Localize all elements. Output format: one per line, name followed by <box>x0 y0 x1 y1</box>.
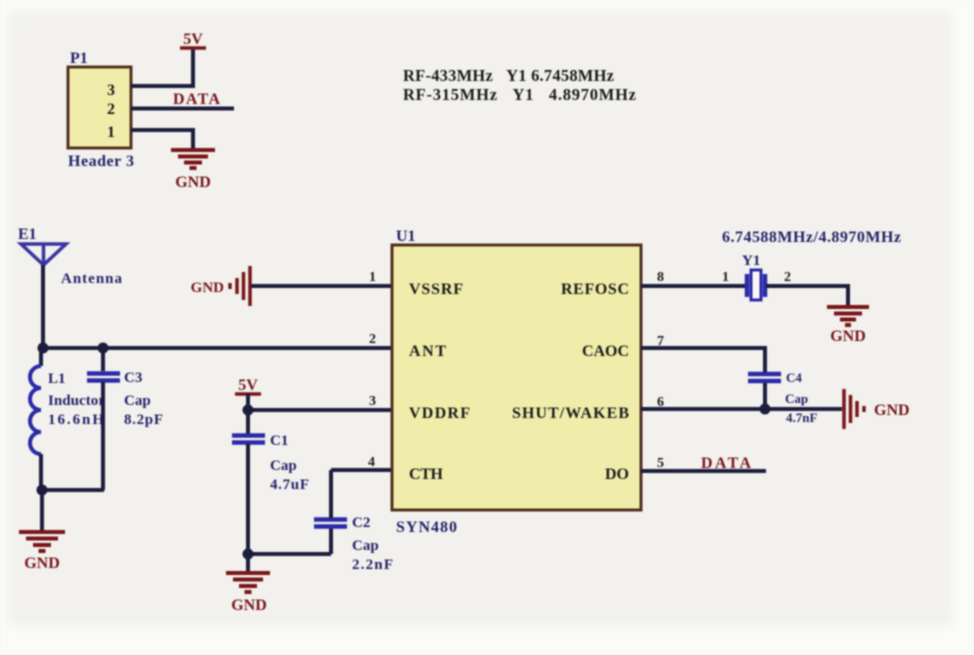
svg-text:P1: P1 <box>70 50 88 67</box>
svg-text:7: 7 <box>657 334 664 349</box>
capacitor C3 <box>87 348 163 490</box>
svg-text:GND: GND <box>175 174 211 191</box>
junction (C4 bottom) <box>760 404 771 415</box>
svg-text:C1: C1 <box>270 433 288 449</box>
svg-text:REFOSC: REFOSC <box>561 281 629 298</box>
svg-text:CTH: CTH <box>409 466 444 483</box>
svg-text:SHUT/WAKEB: SHUT/WAKEB <box>512 405 629 422</box>
power 5V (at C1) <box>235 377 261 394</box>
svg-text:2: 2 <box>107 101 115 118</box>
svg-text:GND: GND <box>830 328 866 345</box>
svg-text:Cap: Cap <box>124 393 151 409</box>
svg-text:GND: GND <box>24 555 60 572</box>
wire CAOC pin7 to C4 <box>641 348 765 372</box>
junction (5V / C1) <box>243 405 254 416</box>
svg-text:C2: C2 <box>352 515 370 531</box>
power GND (left, sideways at VSSRF) <box>230 266 250 306</box>
svg-text:E1: E1 <box>18 226 37 243</box>
svg-text:GND: GND <box>191 280 225 296</box>
svg-text:5V: 5V <box>238 377 258 394</box>
wire pin2 DATA <box>131 107 234 111</box>
svg-text:U1: U1 <box>396 228 416 245</box>
junction (L1 bottom) <box>37 485 48 496</box>
ground (below C1) <box>226 573 270 592</box>
svg-text:1: 1 <box>107 124 115 141</box>
svg-text:4.7nF: 4.7nF <box>786 410 817 425</box>
svg-text:2: 2 <box>784 270 791 285</box>
svg-text:VDDRF: VDDRF <box>409 405 470 422</box>
svg-text:RF-315MHz Y1 4.8970MHz: RF-315MHz Y1 4.8970MHz <box>403 85 636 104</box>
capacitor C2 <box>314 470 393 573</box>
svg-text:Cap: Cap <box>352 538 379 554</box>
wire DO pin5 <box>641 469 766 473</box>
op-amp U1 (SYN480 IC) <box>392 228 641 536</box>
svg-text:CAOC: CAOC <box>582 343 629 360</box>
svg-text:4: 4 <box>368 455 375 470</box>
svg-text:3: 3 <box>107 82 115 99</box>
ground (below header) <box>171 150 215 168</box>
wire antenna stem <box>41 265 45 348</box>
crystal Y1 <box>722 253 791 300</box>
svg-text:Inductor: Inductor <box>48 393 105 409</box>
capacitor C1 <box>232 410 309 554</box>
wire C2 to CTH pin4 <box>331 468 392 472</box>
wire C1 bottom to C2 <box>248 552 331 556</box>
power 5V (top) <box>180 31 206 48</box>
svg-text:L1: L1 <box>48 371 66 387</box>
svg-text:Antenna: Antenna <box>61 271 123 287</box>
svg-text:5: 5 <box>657 456 664 471</box>
svg-text:Cap: Cap <box>270 458 297 474</box>
wire 5V to VDDRF pin3 <box>248 394 392 410</box>
wire to ground <box>40 490 44 530</box>
wire L1/C3 bottom link <box>41 488 104 492</box>
svg-text:2: 2 <box>369 332 376 347</box>
svg-text:Cap: Cap <box>785 391 808 406</box>
svg-text:6.74588MHz/4.8970MHz: 6.74588MHz/4.8970MHz <box>722 229 901 246</box>
svg-text:4.7uF: 4.7uF <box>270 477 309 493</box>
capacitor C4 <box>748 370 817 425</box>
svg-text:SYN480: SYN480 <box>396 519 457 536</box>
svg-text:Y1: Y1 <box>742 253 760 269</box>
ground (right of crystal) <box>827 307 869 325</box>
svg-text:GND: GND <box>231 597 267 614</box>
wire crystal to GND <box>766 286 848 305</box>
junction (C3 top) <box>98 343 109 354</box>
svg-text:1: 1 <box>369 270 376 285</box>
svg-text:1: 1 <box>722 270 729 285</box>
svg-text:C4: C4 <box>786 370 802 385</box>
svg-text:5V: 5V <box>183 31 203 48</box>
wire SHUT/WAKEB pin6 to GND <box>641 407 842 411</box>
svg-text:DO: DO <box>605 466 629 483</box>
svg-text:ANT: ANT <box>409 343 446 360</box>
svg-text:DATA: DATA <box>173 91 220 108</box>
inductor L1 <box>30 348 105 490</box>
svg-text:Header 3: Header 3 <box>68 153 134 170</box>
wire pin1 to GND <box>131 130 193 149</box>
header P1 <box>68 50 134 170</box>
wire C1 to ground <box>246 554 250 571</box>
wire GND to VSSRF pin1 <box>251 284 392 288</box>
svg-text:GND: GND <box>874 402 910 419</box>
svg-text:2.2nF: 2.2nF <box>352 557 393 573</box>
wire ANT net horizontal <box>43 346 392 350</box>
antenna E1 <box>18 226 123 287</box>
svg-text:VSSRF: VSSRF <box>409 281 463 298</box>
note RF frequencies <box>403 66 636 104</box>
wire REFOSC pin8 to crystal <box>641 284 746 288</box>
svg-text:C3: C3 <box>124 370 142 386</box>
svg-text:8.2pF: 8.2pF <box>124 412 163 428</box>
power GND (right, sideways at pin6) <box>844 389 864 429</box>
wire pin3 to 5V <box>131 48 193 86</box>
svg-text:3: 3 <box>369 394 376 409</box>
svg-text:8: 8 <box>657 270 664 285</box>
svg-text:6: 6 <box>657 395 664 410</box>
junction (antenna / L1) <box>38 343 49 354</box>
ground (bottom left) <box>19 532 65 551</box>
junction (C1 bottom) <box>243 549 254 560</box>
svg-text:RF-433MHz Y1 6.7458MHz: RF-433MHz Y1 6.7458MHz <box>403 66 614 85</box>
